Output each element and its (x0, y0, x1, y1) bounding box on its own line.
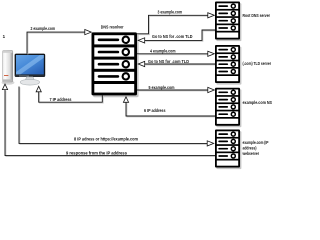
svg-text:1: 1 (3, 34, 6, 39)
wire 8: client to webserver (20, 87, 208, 144)
svg-text:9 response from the IP address: 9 response from the IP address (66, 150, 128, 155)
wire 9: webserver back to client (6, 91, 216, 157)
arrowhead 8 into webserver (207, 141, 214, 146)
svg-text:DNS resolver: DNS resolver (101, 24, 124, 29)
svg-text:3 example.com: 3 example.com (158, 10, 183, 15)
wire return 2: TLD to resolver (146, 64, 217, 66)
svg-text:6 IP address: 6 IP address (144, 108, 166, 113)
svg-text:4 example.com: 4 example.com (150, 48, 176, 53)
wire 4: resolver to TLD server (138, 54, 209, 56)
arrowhead 6 up into resolver (123, 97, 128, 103)
svg-text:Go to NS for .com TLD: Go to NS for .com TLD (148, 59, 189, 64)
DNS resolver server stack (92, 32, 139, 97)
client tower (3, 50, 13, 82)
arrowhead 9 up into client (2, 84, 7, 90)
arrowhead return 1 into resolver (138, 38, 145, 43)
svg-text:example.com (IP: example.com (IP (243, 140, 269, 145)
wire 6: example.com NS back to resolver (127, 103, 216, 117)
monitor bottom silver line (19, 75, 29, 78)
arrowhead 3 into root server (208, 13, 215, 18)
wire 3: resolver to root server (138, 16, 209, 35)
svg-text:8 IP adress or https://example: 8 IP adress or https://example.com (74, 136, 138, 141)
tower base dark (3, 79, 12, 81)
wire return 1: root to resolver (146, 31, 217, 41)
svg-text:Go to NS for .com TLD: Go to NS for .com TLD (152, 34, 193, 39)
example.com NS server stack (215, 88, 241, 128)
tower top cap (3, 51, 12, 53)
svg-text:Root DNS server: Root DNS server (243, 13, 271, 18)
svg-text:(.com) TLD server: (.com) TLD server (243, 61, 272, 66)
monitor bottom strip (15, 75, 44, 77)
client tower shadow (2, 80, 15, 84)
svg-text:address): address) (243, 146, 257, 151)
wire 5: resolver to example.com NS (138, 90, 209, 92)
monitor stand base (20, 79, 39, 85)
svg-text:2 example.com: 2 example.com (31, 26, 56, 31)
screen diagonal sheen (15, 55, 45, 76)
.com TLD server stack (215, 45, 241, 85)
monitor frame (15, 54, 46, 77)
arrowhead return 2 into resolver (138, 61, 145, 66)
arrowhead 4 into TLD server (208, 51, 215, 56)
root DNS server stack (215, 2, 241, 42)
example.com webserver stack (215, 130, 241, 170)
tower drive slot (4, 75, 8, 76)
wire 7: resolver down to client (40, 93, 104, 103)
svg-text:example.com NS: example.com NS (243, 100, 273, 105)
arrowhead 7 up into client (36, 86, 41, 92)
svg-text:5 example.com: 5 example.com (149, 85, 175, 90)
arrowhead 2 into resolver (85, 30, 92, 35)
monitor stand neck (25, 77, 34, 81)
svg-text:webserver: webserver (242, 151, 260, 156)
arrowhead 5 into example.com NS (208, 87, 215, 92)
wire 2: client to resolver (28, 33, 86, 54)
svg-text:7 IP address: 7 IP address (50, 97, 73, 102)
monitor screen (16, 55, 44, 74)
